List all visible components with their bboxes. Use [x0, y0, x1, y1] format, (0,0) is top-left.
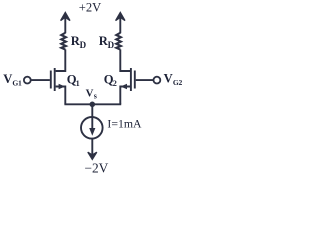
- svg-text:+2V: +2V: [79, 1, 102, 15]
- terminal circle VG1: [24, 77, 31, 84]
- label RD right: [99, 34, 115, 50]
- label Q2: [104, 73, 117, 89]
- current source I1 arrowhead: [89, 128, 95, 136]
- svg-text:D: D: [108, 40, 115, 50]
- wire Vs to current source: [91, 104, 93, 117]
- svg-text:V: V: [86, 88, 94, 100]
- node -2V label: [84, 160, 108, 175]
- label RD left: [71, 34, 87, 50]
- svg-text:G1: G1: [12, 79, 22, 88]
- transistor Q1 source arrow: [59, 84, 66, 90]
- current source I1 arrow shaft: [91, 118, 93, 131]
- svg-text:2: 2: [113, 79, 117, 88]
- node +2V label: [79, 1, 102, 15]
- label I=1mA: [107, 116, 142, 130]
- label VG1: [3, 72, 22, 87]
- wire left drain: [56, 49, 66, 71]
- svg-text:1: 1: [76, 79, 80, 88]
- wire Vs horizontal: [64, 103, 121, 105]
- svg-text:−2V: −2V: [84, 160, 108, 175]
- wire current source to -2V: [91, 139, 93, 156]
- wire -2V arrowhead: [88, 152, 97, 159]
- node Vs junction dot: [90, 102, 96, 108]
- transistor Q2 channel bar: [130, 68, 132, 91]
- transistor Q1 gate bar: [50, 71, 52, 89]
- current source I1 circle: [81, 117, 103, 139]
- wire left supply arrow shaft: [64, 16, 66, 33]
- svg-text:G2: G2: [173, 78, 183, 87]
- wire Q1 source stub: [56, 87, 66, 105]
- terminal circle VG2: [154, 77, 161, 84]
- svg-text:I=1mA: I=1mA: [107, 116, 142, 130]
- svg-text:V: V: [3, 72, 12, 86]
- transistor Q1 channel bar: [54, 68, 56, 91]
- svg-text:s: s: [94, 92, 97, 101]
- label Q1: [67, 73, 80, 89]
- label VG2: [164, 72, 183, 87]
- wire right supply arrowhead: [116, 12, 125, 20]
- label Vs: [86, 88, 97, 101]
- wire Q1 gate lead: [31, 79, 50, 81]
- wire Q2 source stub: [120, 87, 130, 105]
- transistor Q2 source arrow: [121, 84, 128, 90]
- wire right drain: [120, 49, 130, 71]
- wire left supply arrowhead: [61, 12, 70, 20]
- transistor Q2 gate bar: [134, 71, 136, 89]
- resistor RD right: [116, 33, 121, 50]
- wire Q2 gate lead: [136, 79, 154, 81]
- svg-text:D: D: [80, 40, 87, 50]
- svg-text:V: V: [164, 72, 173, 86]
- resistor RD left: [61, 33, 66, 50]
- wire right supply arrow shaft: [119, 16, 121, 33]
